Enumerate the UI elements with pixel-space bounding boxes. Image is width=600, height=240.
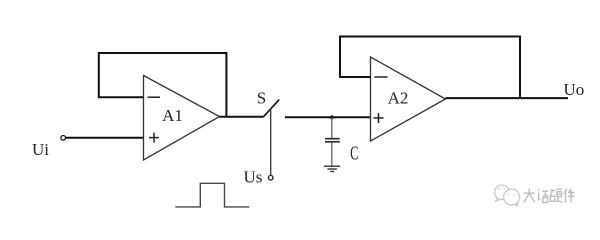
svg-text:Uo: Uo <box>564 80 585 99</box>
op-amp A1 <box>144 76 220 161</box>
op-amp A2 <box>371 57 446 141</box>
jian <box>564 189 566 194</box>
capacitor C <box>325 117 340 165</box>
A1 plus sign <box>149 133 159 143</box>
A1 minus sign <box>148 96 161 98</box>
node junction dot <box>330 115 334 119</box>
watermark logo <box>495 185 520 206</box>
wire switch to A2 + input <box>285 116 371 118</box>
terminal Ui <box>61 136 66 141</box>
wire switch control <box>270 108 272 175</box>
svg-text:A1: A1 <box>162 106 183 125</box>
svg-text:C: C <box>350 143 358 165</box>
da <box>524 192 535 194</box>
svg-text:A2: A2 <box>388 89 409 108</box>
wire A2 output to Uo <box>446 97 569 99</box>
switch S arm <box>264 100 280 117</box>
A2 minus sign <box>375 76 388 78</box>
wire A1 feedback loop <box>99 53 227 117</box>
A2 plus sign <box>374 113 384 123</box>
terminal Us <box>268 175 273 180</box>
svg-text:S: S <box>257 89 266 108</box>
watermark text 大话硬件 <box>524 189 575 203</box>
ying <box>550 189 555 191</box>
wire Ui to A1 + input <box>66 137 144 139</box>
pulse waveform Us <box>175 183 249 207</box>
wire A1 output to switch <box>220 116 264 118</box>
svg-text:Us: Us <box>244 168 263 187</box>
ground <box>324 166 340 171</box>
hua <box>538 189 539 190</box>
wire A2 feedback loop <box>340 37 520 99</box>
svg-text:Ui: Ui <box>32 140 49 159</box>
